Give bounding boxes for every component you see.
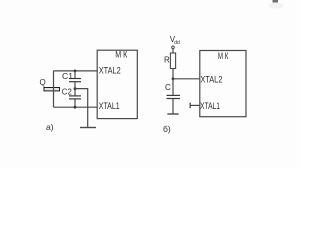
- label Vdd: [170, 35, 180, 46]
- node XTAL2/C1 junction: [74, 70, 77, 73]
- svg-text:Q: Q: [40, 78, 46, 87]
- svg-text:а): а): [46, 122, 54, 132]
- cropped text remnant top-right: [273, 0, 279, 3]
- wire XTAL1 stub (b): [190, 104, 200, 106]
- node RC junction: [172, 77, 175, 80]
- wire midpoint to ground branch: [75, 89, 88, 128]
- svg-text:XTAL1: XTAL1: [99, 101, 120, 112]
- svg-text:R: R: [164, 56, 170, 65]
- ground (a): [80, 127, 96, 129]
- svg-text:М К: М К: [218, 51, 229, 61]
- crystal Q: [44, 88, 60, 91]
- wire C2 to XTAL1 net: [74, 99, 76, 107]
- wire Vdd to R: [172, 49, 174, 53]
- wire junction to C: [172, 79, 174, 96]
- svg-text:C1: C1: [62, 71, 73, 81]
- svg-text:XTAL2: XTAL2: [200, 74, 222, 85]
- wire XTAL1 net (a): [54, 106, 98, 108]
- MCU box U1 (MK): [97, 50, 137, 118]
- svg-text:XTAL2: XTAL2: [99, 65, 121, 76]
- svg-text:dd: dd: [174, 40, 180, 46]
- wire C to ground: [172, 99, 174, 115]
- ground (b): [167, 113, 178, 115]
- resistor R: [170, 53, 175, 69]
- ground tick XTAL1 (b): [189, 103, 191, 109]
- capacitor C: [167, 95, 181, 98]
- svg-text:б): б): [163, 124, 171, 134]
- wire junction to XTAL2 (b): [173, 78, 200, 80]
- node midpoint junction: [74, 87, 77, 90]
- svg-text:C: C: [165, 83, 171, 92]
- MCU box U2 (MK): [200, 51, 246, 117]
- svg-text:C2: C2: [62, 86, 72, 96]
- node XTAL1/C2 junction: [74, 106, 77, 109]
- wire left vertical through crystal: [53, 71, 55, 107]
- capacitor C1: [69, 79, 81, 82]
- svg-text:XTAL1: XTAL1: [200, 101, 220, 112]
- wire C1 to midpoint: [74, 82, 76, 96]
- capacitor C2: [69, 96, 81, 99]
- wire XTAL2 to C1: [74, 71, 76, 79]
- wire XTAL2 net (a): [54, 70, 98, 72]
- wire R to junction: [172, 69, 174, 79]
- terminal Vdd: [172, 46, 175, 49]
- svg-text:М К: М К: [115, 50, 128, 60]
